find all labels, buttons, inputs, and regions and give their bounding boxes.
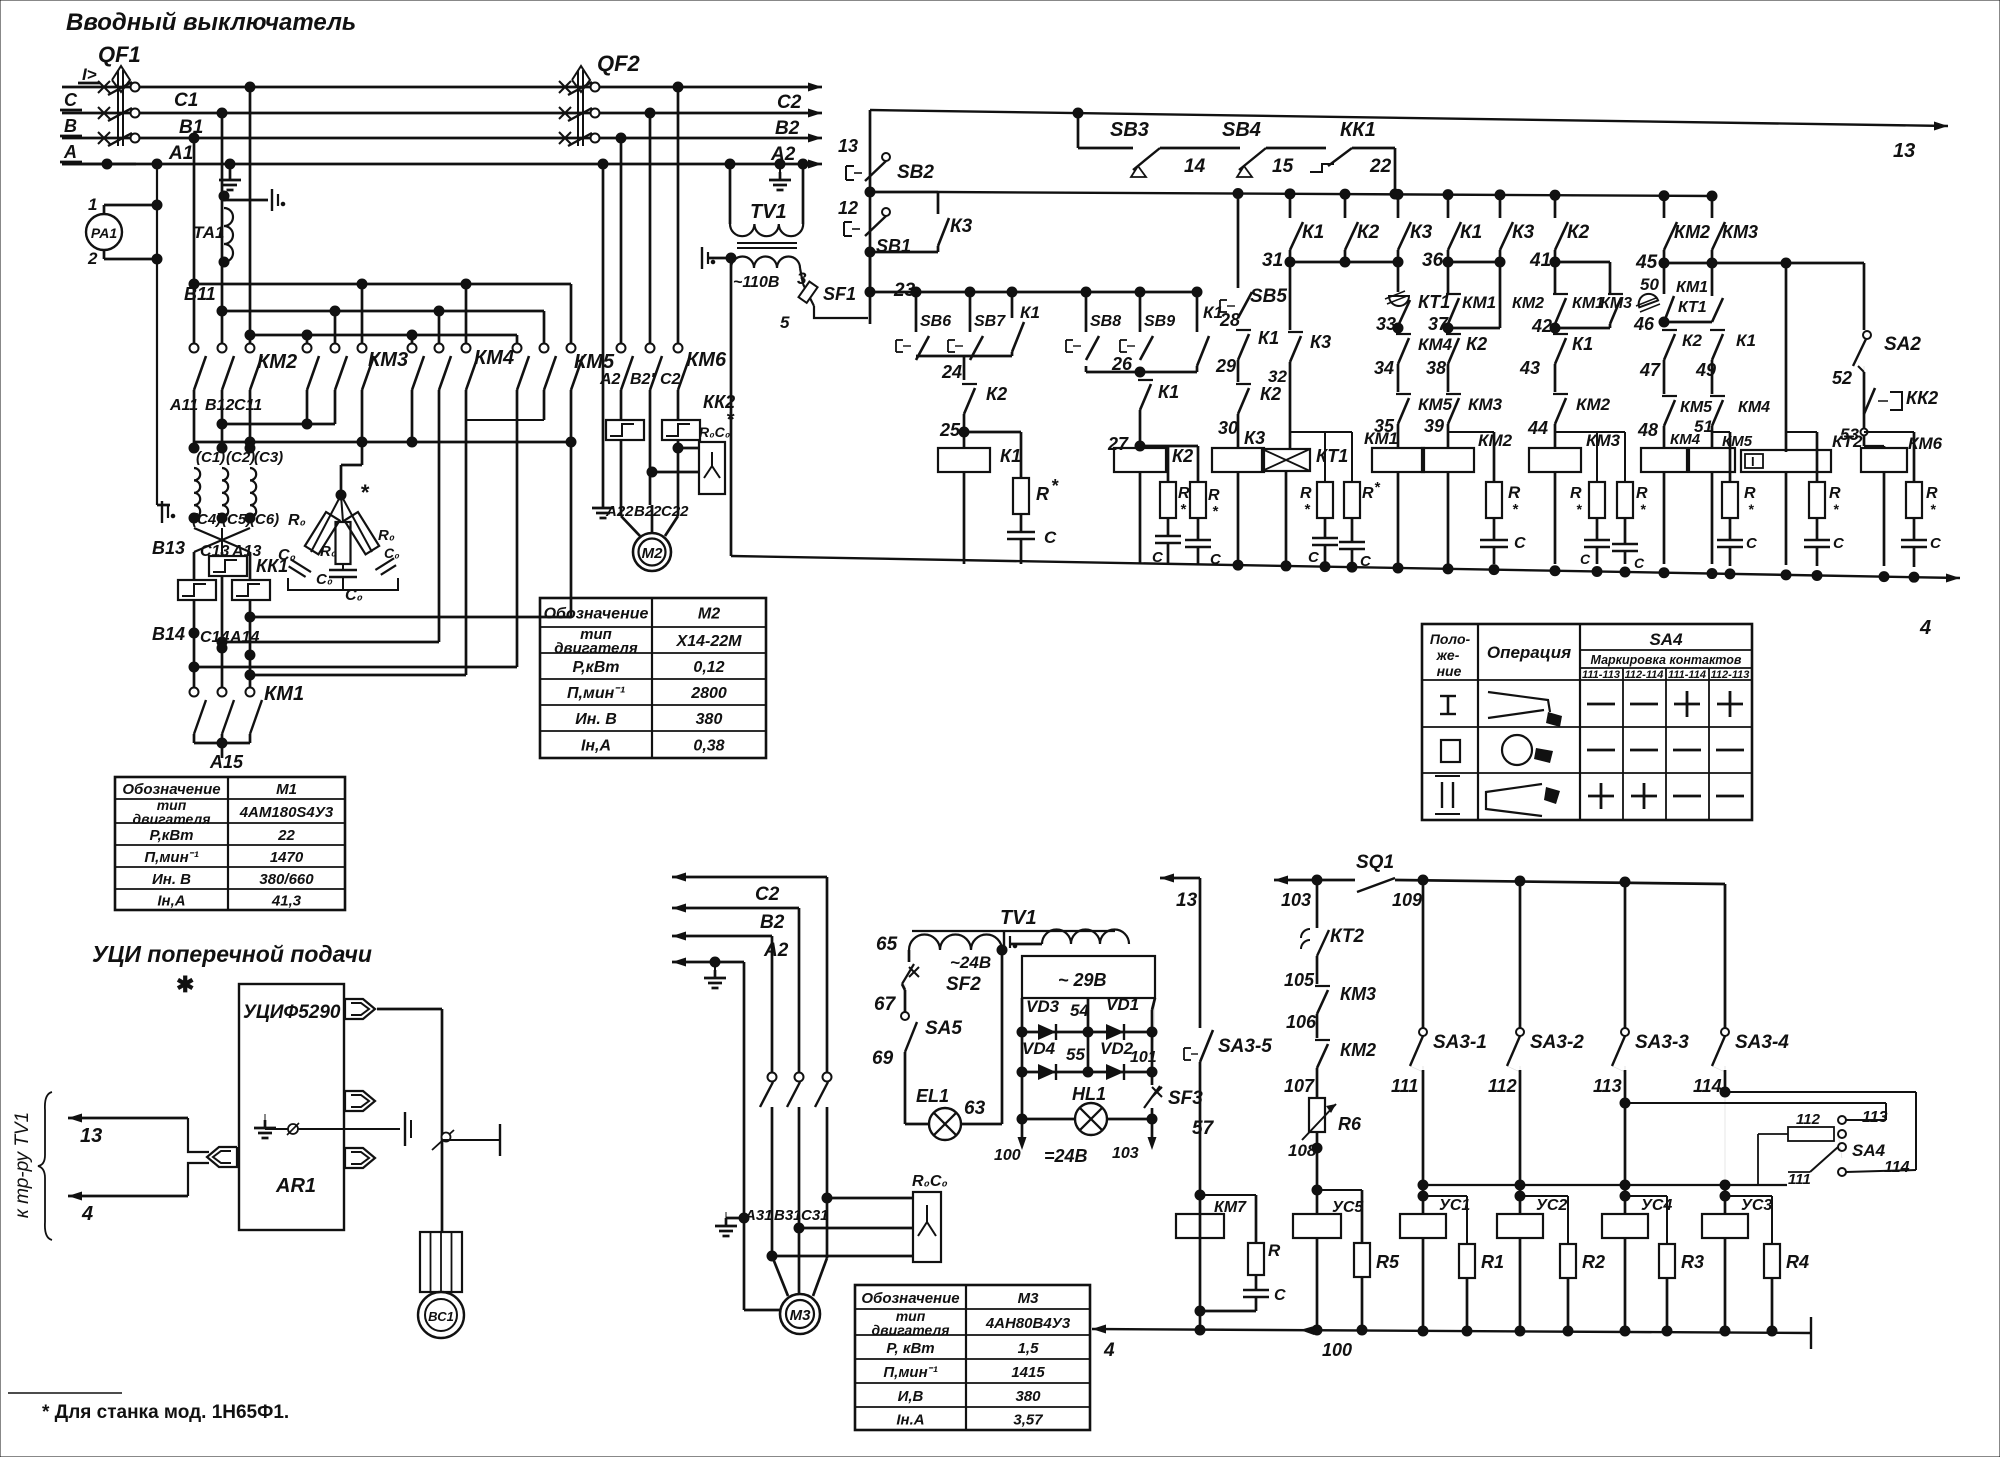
svg-text:А11: А11 [169,397,198,414]
svg-text:380/660: 380/660 [259,871,314,888]
svg-text:380: 380 [696,711,723,728]
svg-text:А22: А22 [605,503,634,520]
svg-text:(С3): (С3) [254,449,283,466]
svg-text:М2: М2 [642,545,663,562]
svg-text:КМ2: КМ2 [1340,1040,1376,1060]
svg-text:13: 13 [80,1125,102,1147]
svg-text:TV1: TV1 [750,201,787,223]
svg-text:R1: R1 [1481,1252,1504,1272]
svg-text:VD4: VD4 [1022,1039,1056,1058]
svg-text:*: * [1930,501,1936,517]
svg-text:А15: А15 [209,752,244,772]
svg-text:М3: М3 [790,1307,811,1324]
svg-text:R: R [1744,485,1756,502]
svg-text:С31: С31 [801,1207,829,1224]
svg-text:5: 5 [780,313,790,332]
svg-text:112-114: 112-114 [1625,669,1664,681]
svg-text:12: 12 [838,198,858,218]
svg-text:КМ7: КМ7 [1214,1199,1247,1216]
svg-text:111-114: 111-114 [1668,669,1706,681]
svg-text:SА3-1: SА3-1 [1433,1032,1487,1053]
svg-text:С: С [1634,555,1645,571]
svg-text:107: 107 [1284,1076,1315,1096]
svg-text:К1: К1 [1020,303,1040,322]
svg-text:45: 45 [1635,252,1658,273]
svg-text:К3: К3 [1410,222,1433,243]
svg-text:R: R [1829,485,1841,502]
svg-text:*: * [360,480,370,505]
svg-text:Вводный выключатель: Вводный выключатель [66,9,356,36]
svg-text:R2: R2 [1582,1252,1605,1272]
svg-text:106: 106 [1286,1012,1317,1032]
svg-text:101: 101 [1130,1049,1157,1066]
svg-text:R4: R4 [1786,1252,1809,1272]
svg-text:С: С [1580,551,1591,567]
svg-text:В11: В11 [184,284,216,304]
svg-text:14: 14 [1184,156,1206,177]
svg-text:С1: С1 [174,90,198,111]
svg-text:К1: К1 [1736,331,1756,350]
svg-text:К3: К3 [950,216,973,237]
svg-text:112: 112 [1796,1111,1821,1128]
svg-text:63: 63 [964,1098,986,1119]
svg-text:же-: же- [1436,647,1460,663]
svg-text:32: 32 [1268,367,1287,386]
svg-text:44: 44 [1527,418,1548,438]
svg-text:С: С [1833,535,1845,552]
svg-text:R3: R3 [1681,1252,1704,1272]
svg-text:4: 4 [1919,617,1931,639]
svg-text:114: 114 [1884,1159,1910,1176]
svg-text:4: 4 [81,1203,93,1225]
svg-text:П,минˉ¹: П,минˉ¹ [567,685,626,702]
svg-text:1: 1 [88,195,97,214]
svg-text:47: 47 [1639,360,1661,380]
svg-text:3,57: 3,57 [1013,1412,1043,1429]
svg-text:КМ3: КМ3 [1586,431,1621,450]
svg-text:ТА1: ТА1 [193,223,224,242]
svg-text:R: R [1300,485,1312,502]
svg-text:КМ3: КМ3 [1600,295,1632,312]
svg-text:К3: К3 [1512,222,1535,243]
svg-text:КМ5: КМ5 [1680,399,1713,416]
svg-text:31: 31 [1262,250,1283,271]
svg-text:А1: А1 [168,143,193,164]
svg-text:С2: С2 [777,92,802,113]
svg-text:Iн.А: Iн.А [896,1412,924,1429]
svg-text:100: 100 [1322,1340,1352,1360]
svg-text:SВ8: SВ8 [1090,313,1121,330]
svg-text:Поло-: Поло- [1430,631,1471,647]
svg-text:К2: К2 [1172,446,1193,466]
svg-text:В: В [64,116,77,136]
svg-text:114: 114 [1693,1076,1722,1096]
svg-text:ние: ние [1437,663,1462,679]
svg-text:105: 105 [1284,970,1315,990]
svg-text:29: 29 [1215,356,1236,376]
svg-text:36: 36 [1422,250,1444,271]
svg-text:С2: С2 [755,884,780,905]
svg-text:КМ4: КМ4 [1670,431,1701,448]
svg-text:I: I [1751,454,1755,469]
svg-text:КМ1: КМ1 [1676,279,1708,296]
svg-text:41,3: 41,3 [271,893,302,910]
svg-text:R: R [1208,487,1220,504]
svg-text:Обозначение: Обозначение [122,781,220,798]
svg-text:А2: А2 [763,940,789,961]
svg-text:К1: К1 [1158,382,1179,402]
svg-text:КМ6: КМ6 [686,349,727,371]
svg-text:КТ2: КТ2 [1330,926,1365,947]
svg-text:52: 52 [1832,368,1852,388]
svg-text:КТ1: КТ1 [1678,299,1707,316]
svg-text:К2: К2 [1357,222,1380,243]
svg-text:КМ1: КМ1 [264,683,304,705]
svg-text:*: * [1748,501,1754,517]
svg-text:SQ1: SQ1 [1356,852,1394,873]
svg-text:УЦИФ5290: УЦИФ5290 [243,1002,341,1023]
svg-text:УЦИ поперечной подачи: УЦИ поперечной подачи [92,941,372,967]
svg-text:0,38: 0,38 [693,738,724,755]
svg-text:ЕL1: ЕL1 [916,1086,949,1106]
svg-text:К1: К1 [1302,222,1324,243]
svg-text:УС3: УС3 [1741,1197,1772,1214]
svg-text:Р, кВт: Р, кВт [886,1340,934,1357]
svg-text:48: 48 [1637,420,1658,440]
svg-text:КМ4: КМ4 [474,347,514,369]
svg-text:К2: К2 [1567,222,1590,243]
svg-text:67: 67 [874,994,897,1015]
svg-text:SF3: SF3 [1168,1088,1203,1109]
svg-text:SВ9: SВ9 [1144,313,1175,330]
svg-text:К1: К1 [1572,334,1593,354]
svg-text:33: 33 [1376,314,1396,334]
svg-text:41: 41 [1529,250,1551,271]
svg-text:М2: М2 [698,606,720,623]
svg-text:C₀: C₀ [384,545,400,561]
svg-text:SВ7: SВ7 [974,313,1006,330]
svg-text:двигателя: двигателя [872,1322,950,1338]
svg-text:2: 2 [87,249,98,268]
svg-text:22: 22 [277,827,295,844]
svg-text:SВ6: SВ6 [920,313,951,330]
svg-text:В12: В12 [205,397,234,414]
svg-text:Ин. В: Ин. В [152,871,191,888]
svg-text:С22: С22 [661,503,689,520]
svg-text:К2: К2 [1682,331,1702,350]
svg-text:НL1: НL1 [1072,1084,1106,1104]
svg-text:И,В: И,В [898,1388,924,1405]
svg-text:С: С [1274,1287,1286,1304]
svg-text:В2': В2' [630,371,655,388]
svg-text:А14: А14 [229,629,259,646]
svg-text:С: С [1746,535,1758,552]
svg-text:111: 111 [1391,1076,1418,1096]
svg-text:КМ2: КМ2 [1674,222,1710,242]
svg-text:ТV1: ТV1 [1000,907,1037,929]
svg-text:КМ3: КМ3 [1468,395,1503,414]
svg-text:С: С [1360,553,1372,570]
svg-text:КМ5: КМ5 [1418,395,1453,414]
svg-text:С: С [64,90,78,110]
svg-text:R6: R6 [1338,1114,1362,1134]
svg-text:КМ2: КМ2 [1576,395,1611,414]
svg-text:24: 24 [941,362,962,382]
svg-text:*: * [1576,501,1582,517]
svg-text:к тр-ру ТV1: к тр-ру ТV1 [12,1112,33,1218]
svg-text:В13: В13 [152,538,185,558]
svg-text:39: 39 [1424,416,1444,436]
svg-text:✱: ✱ [176,972,194,997]
svg-text:Iн,А: Iн,А [157,893,185,910]
svg-text:ВС1: ВС1 [428,1309,454,1324]
svg-text:4: 4 [1103,1340,1115,1361]
svg-text:26: 26 [1111,354,1133,374]
svg-text:R: R [1926,485,1938,502]
svg-text:QF2: QF2 [597,51,641,76]
svg-text:П,минˉ¹: П,минˉ¹ [883,1364,937,1381]
svg-text:111: 111 [1788,1171,1811,1188]
svg-text:103: 103 [1281,890,1311,910]
svg-text:~ 29В: ~ 29В [1058,970,1107,990]
svg-text:КТ1: КТ1 [1418,292,1450,312]
svg-text:К2: К2 [1260,384,1281,404]
svg-text:VD1: VD1 [1106,995,1139,1014]
svg-text:С2': С2' [660,371,685,388]
svg-text:В2: В2 [760,912,785,933]
svg-text:*: * [1051,476,1059,496]
svg-text:Iн,А: Iн,А [581,738,611,755]
svg-text:37: 37 [1428,314,1449,334]
svg-text:УС2: УС2 [1536,1197,1567,1214]
svg-text:~110В: ~110В [733,274,779,291]
svg-text:КМ4: КМ4 [1738,399,1770,416]
svg-text:SВ4: SВ4 [1222,119,1261,141]
svg-text:УС5: УС5 [1332,1199,1364,1216]
svg-text:С13: С13 [200,543,229,560]
svg-text:I>: I> [82,65,97,84]
svg-text:С: С [1308,549,1320,566]
svg-text:Ин. В: Ин. В [575,711,617,728]
svg-text:В2: В2 [775,118,800,139]
svg-text:КМ3: КМ3 [1722,222,1758,242]
svg-text:34: 34 [1374,358,1394,378]
svg-text:22: 22 [1369,156,1392,177]
svg-text:1415: 1415 [1011,1364,1045,1381]
svg-text:Операция: Операция [1487,643,1571,662]
svg-text:К3: К3 [1310,332,1331,352]
svg-text:К1: К1 [1258,328,1279,348]
svg-text:М1: М1 [276,781,297,798]
svg-text:1,5: 1,5 [1018,1340,1040,1357]
svg-text:13: 13 [1176,890,1198,911]
svg-text:КМ5: КМ5 [574,351,615,373]
svg-text:R: R [1036,484,1049,504]
svg-text:R₀C₀: R₀C₀ [912,1173,948,1190]
svg-text:К3: К3 [1244,428,1265,448]
svg-text:2800: 2800 [690,685,727,702]
svg-text:VD2: VD2 [1100,1039,1134,1058]
svg-text:П,минˉ¹: П,минˉ¹ [144,849,198,866]
svg-text:РА1: РА1 [91,225,118,241]
svg-text:А: А [63,142,77,162]
svg-text:SF2: SF2 [946,974,981,995]
svg-text:КМ2: КМ2 [257,351,297,373]
svg-text:С11: С11 [234,397,262,414]
svg-text:SА4: SА4 [1649,630,1683,649]
svg-text:54: 54 [1070,1001,1089,1020]
svg-text:R5: R5 [1376,1252,1400,1272]
svg-text:R: R [1268,1241,1281,1260]
svg-text:SА2: SА2 [1884,334,1921,355]
svg-text:VD3: VD3 [1026,997,1060,1016]
svg-text:SВ3: SВ3 [1110,119,1149,141]
svg-text:SА5: SА5 [925,1018,962,1039]
svg-text:QF1: QF1 [98,42,141,67]
svg-text:К2: К2 [1466,334,1487,354]
svg-text:112-113: 112-113 [1711,669,1750,681]
svg-text:R: R [1362,485,1374,502]
svg-text:*: * [1833,501,1839,517]
svg-text:C₀: C₀ [278,547,296,564]
svg-text:1470: 1470 [270,849,304,866]
svg-text:В22: В22 [634,503,662,520]
svg-text:Обозначение: Обозначение [544,606,649,623]
svg-text:К2: К2 [986,384,1007,404]
svg-text:38: 38 [1426,358,1446,378]
svg-text:55: 55 [1066,1045,1085,1064]
svg-text:4АМ180S4У3: 4АМ180S4У3 [239,804,334,821]
svg-text:103: 103 [1112,1145,1139,1162]
svg-text:0,12: 0,12 [693,659,724,676]
svg-text:R: R [1508,483,1521,502]
svg-text:65: 65 [876,934,898,955]
svg-text:28: 28 [1219,310,1240,330]
svg-text:100: 100 [994,1147,1021,1164]
svg-text:SА4: SА4 [1852,1141,1886,1160]
svg-text:УС1: УС1 [1439,1197,1470,1214]
svg-text:13: 13 [838,136,858,156]
svg-text:SB2: SB2 [897,162,934,183]
svg-text:КМ1: КМ1 [1462,293,1496,312]
svg-text:R₀: R₀ [288,512,306,529]
svg-text:SА3-5: SА3-5 [1218,1036,1272,1057]
svg-text:~24В: ~24В [950,953,991,972]
svg-text:SF1: SF1 [823,284,856,304]
svg-text:111-113: 111-113 [1582,669,1620,681]
svg-text:С: С [1514,535,1526,552]
svg-text:КТ1: КТ1 [1316,446,1348,466]
svg-text:15: 15 [1272,156,1294,177]
svg-text:КМ3: КМ3 [368,349,408,371]
svg-text:КМ4: КМ4 [1418,335,1453,354]
svg-text:4АН80В4У3: 4АН80В4У3 [985,1315,1071,1332]
svg-text:Р,кВт: Р,кВт [149,827,193,844]
svg-text:КМ2: КМ2 [1512,295,1544,312]
svg-text:SА3-4: SА3-4 [1735,1032,1789,1053]
svg-text:В14: В14 [152,624,185,644]
svg-text:13: 13 [1893,140,1915,162]
svg-text:М3: М3 [1018,1290,1039,1307]
svg-text:К1: К1 [1460,222,1482,243]
svg-text:Обозначение: Обозначение [861,1290,959,1307]
svg-text:Р,кВт: Р,кВт [572,659,619,676]
svg-text:С₀: С₀ [316,571,333,588]
svg-text:30: 30 [1218,418,1238,438]
svg-text:SА3-3: SА3-3 [1635,1032,1689,1053]
svg-text:42: 42 [1531,316,1552,336]
svg-text:25: 25 [939,420,961,440]
svg-text:Маркировка контактов: Маркировка контактов [1591,653,1742,667]
svg-text:КК2: КК2 [1906,388,1938,408]
svg-text:R: R [1178,485,1190,502]
svg-text:С: С [1930,535,1942,552]
svg-text:двигателя: двигателя [133,811,211,827]
svg-text:46: 46 [1633,314,1655,334]
svg-text:В31: В31 [774,1207,802,1224]
svg-text:Х14-22М: Х14-22М [676,633,743,650]
svg-text:К1: К1 [1000,446,1021,466]
svg-text:*: * [1640,501,1646,517]
svg-text:SА3-2: SА3-2 [1530,1032,1584,1053]
svg-text:R₀: R₀ [320,543,337,560]
svg-text:КМ1: КМ1 [1364,429,1398,448]
svg-text:53: 53 [1840,425,1859,444]
svg-text:380: 380 [1015,1388,1041,1405]
svg-text:27: 27 [1107,434,1129,454]
svg-text:113: 113 [1862,1109,1888,1126]
svg-text:двигателя: двигателя [554,640,638,657]
svg-text:КК1: КК1 [1340,119,1376,141]
svg-text:R₀: R₀ [378,527,395,544]
svg-text:112: 112 [1488,1076,1517,1096]
svg-text:69: 69 [872,1048,894,1069]
svg-text:57: 57 [1192,1118,1215,1139]
svg-text:КМ3: КМ3 [1340,984,1376,1004]
svg-text:113: 113 [1593,1076,1622,1096]
svg-text:КМ5: КМ5 [1722,433,1753,450]
svg-text:50: 50 [1640,275,1659,294]
svg-text:* Для станка мод. 1Н65Ф1.: * Для станка мод. 1Н65Ф1. [42,1402,289,1423]
svg-text:SВ5: SВ5 [1250,286,1287,307]
svg-text:R: R [1636,485,1648,502]
svg-text:R: R [1570,485,1582,502]
svg-text:АR1: АR1 [275,1175,316,1197]
svg-text:С: С [1044,528,1057,547]
svg-text:=24В: =24В [1044,1146,1088,1166]
svg-text:109: 109 [1392,890,1422,910]
svg-text:43: 43 [1519,358,1540,378]
